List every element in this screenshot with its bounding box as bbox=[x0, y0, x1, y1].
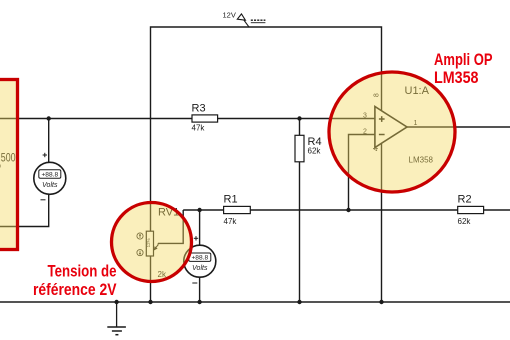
wire output pin1 bbox=[407, 126, 510, 128]
polarity minus V2 bbox=[192, 282, 197, 284]
wire pot top from rail bbox=[150, 119, 152, 232]
svg-text:62k: 62k bbox=[458, 217, 472, 226]
polarity plus V1 bbox=[43, 153, 47, 157]
svg-text:R1: R1 bbox=[224, 193, 238, 205]
svg-text:référence 2V: référence 2V bbox=[33, 280, 117, 299]
node R4 bottom bbox=[297, 300, 301, 304]
wire pot bottom bbox=[150, 256, 152, 302]
resistor R2 bbox=[458, 206, 484, 213]
resistor R4 bbox=[295, 135, 304, 162]
node ground tap bbox=[114, 300, 118, 304]
svg-text:LM358: LM358 bbox=[434, 68, 479, 87]
node pot bottom bbox=[148, 300, 152, 304]
node pin4 ground bbox=[379, 300, 383, 304]
node wiper / voltmeter2 bbox=[197, 208, 201, 212]
svg-text:47k: 47k bbox=[192, 123, 206, 132]
svg-text:Ampli OP: Ampli OP bbox=[434, 50, 493, 69]
wire opamp pin4 to ground bbox=[381, 143, 383, 302]
svg-text:+88.8: +88.8 bbox=[191, 255, 208, 262]
svg-text:12V: 12V bbox=[223, 10, 236, 19]
wire voltmeter2 bottom bbox=[199, 277, 201, 302]
svg-text:62k: 62k bbox=[308, 147, 322, 156]
node voltmeter2 bottom bbox=[197, 300, 201, 304]
polarity minus V1 bbox=[41, 199, 46, 201]
sensor block annotation box (cut off at left) bbox=[0, 80, 18, 250]
pot up button bbox=[137, 233, 143, 239]
plus input mark bbox=[379, 116, 385, 122]
ground bbox=[107, 302, 126, 335]
node voltmeter1 tap bbox=[47, 116, 51, 120]
op-amp U1 triangle bbox=[375, 107, 407, 148]
wire main sensor line bbox=[0, 118, 375, 120]
wire bottom ground rail bbox=[0, 301, 510, 303]
power terminal 12V bbox=[237, 14, 265, 27]
wire wiper riser bbox=[158, 210, 183, 243]
voltmeter V2 bbox=[184, 245, 216, 277]
wire R4 branch bbox=[299, 119, 301, 303]
annotation text Ampli OP LM358 bbox=[434, 50, 493, 87]
wire voltmeter1 top bbox=[48, 119, 50, 164]
svg-text:R3: R3 bbox=[192, 103, 206, 115]
svg-text:47k: 47k bbox=[224, 217, 238, 226]
voltmeter V1 bbox=[34, 162, 66, 194]
node R4 tap bbox=[297, 116, 301, 120]
potentiometer RV1 bbox=[146, 231, 158, 256]
wire voltmeter2 top bbox=[199, 210, 201, 246]
wire inverting input pin2 bbox=[349, 135, 375, 211]
annotation circle op-amp bbox=[329, 72, 455, 192]
svg-text:Tension de: Tension de bbox=[48, 261, 117, 280]
svg-text:Volts: Volts bbox=[42, 182, 58, 189]
svg-text:R2: R2 bbox=[458, 193, 472, 205]
resistor R1 bbox=[224, 206, 251, 213]
polarity plus V2 bbox=[194, 236, 198, 240]
pot down button bbox=[137, 250, 143, 256]
svg-text:Volts: Volts bbox=[192, 265, 208, 272]
node inverting input bbox=[346, 208, 350, 212]
svg-text:+88.8: +88.8 bbox=[41, 171, 58, 178]
minus input mark bbox=[379, 134, 385, 136]
wire voltmeter1 bottom bbox=[0, 194, 49, 227]
annotation text Tension de reference 2V bbox=[33, 261, 117, 299]
annotation circle RV1 bbox=[112, 203, 192, 282]
wire top 12V rail bbox=[151, 27, 382, 119]
resistor R3 bbox=[192, 115, 218, 122]
wire mid reference line bbox=[183, 209, 510, 211]
